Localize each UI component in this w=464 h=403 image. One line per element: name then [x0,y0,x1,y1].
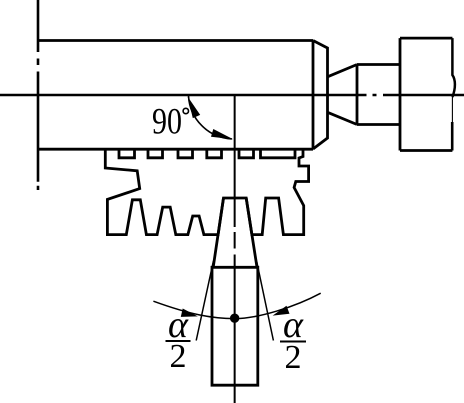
svg-text:2: 2 [285,339,302,376]
svg-text:2: 2 [170,338,187,375]
svg-text:90: 90 [152,102,182,143]
